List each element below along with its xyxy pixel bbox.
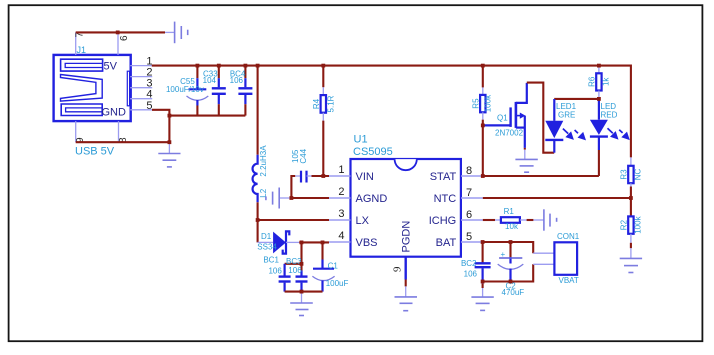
junction LED anode rail / R6 — [597, 97, 601, 101]
LED1 GRE — [545, 99, 586, 153]
U1 pin numbers right — [466, 165, 472, 243]
wire 5V rail — [152, 66, 631, 158]
wire USB pin5 to cap rail — [152, 110, 169, 142]
U1 left pin stubs — [329, 176, 351, 242]
svg-text:6: 6 — [466, 209, 472, 221]
wire R1 to ground — [527, 219, 534, 221]
svg-text:1: 1 — [338, 164, 344, 176]
wire caps bottom rail — [285, 291, 323, 293]
ground below BC caps — [290, 292, 313, 316]
junction BC3 / BC1 branch — [300, 262, 304, 266]
svg-text:NC: NC — [633, 169, 642, 181]
wire shell-bottom — [76, 141, 170, 143]
wire R4 to VIN — [312, 121, 330, 176]
capacitor BC1 — [263, 256, 290, 292]
junction STAT / R5 column — [481, 174, 485, 178]
svg-text:3: 3 — [338, 208, 344, 220]
wire LED anode rail — [554, 98, 599, 100]
svg-text:GRE: GRE — [558, 111, 575, 120]
junction BAT / C2 — [509, 240, 513, 244]
J1 shell pins top — [76, 32, 118, 55]
ground below R2 — [620, 248, 642, 272]
junction 5V rail / R6 — [597, 64, 601, 68]
ground (left) AGND — [266, 188, 292, 209]
svg-text:470uF: 470uF — [502, 288, 525, 297]
transistor Q1 2N7002 — [483, 83, 527, 150]
svg-text:VIN: VIN — [356, 171, 374, 183]
svg-text:GND: GND — [102, 106, 127, 118]
inductor L2 — [253, 145, 268, 202]
junction caps bottom rail / ground — [300, 290, 304, 294]
capacitor C44 — [291, 148, 312, 182]
svg-text:C44: C44 — [299, 148, 308, 163]
svg-text:100uF: 100uF — [326, 279, 349, 288]
svg-text:7: 7 — [466, 187, 472, 199]
svg-text:C1: C1 — [328, 261, 339, 270]
wire VBS — [299, 241, 329, 243]
wire rail to R5 — [482, 66, 484, 88]
resistor R1 — [495, 207, 527, 231]
junction NTC / R3 R2 — [629, 196, 633, 200]
junction AGND node — [290, 196, 294, 200]
IC U1 CS5095 — [351, 133, 461, 256]
wire rail to R4 — [322, 66, 324, 88]
junction 5V rail / BC4 — [244, 64, 248, 68]
svg-text:106: 106 — [230, 76, 244, 85]
svg-text:USB 5V: USB 5V — [75, 146, 115, 158]
junction VBS / BC3 — [300, 241, 304, 245]
svg-text:NTC: NTC — [434, 193, 457, 205]
ground PGDN — [395, 286, 418, 310]
wire rail to L2 — [257, 66, 259, 155]
wire cap bottom rail — [169, 115, 245, 117]
diode D1 — [257, 231, 299, 253]
junction shell wire / ground — [168, 140, 172, 144]
J1 pin numbers 1-5 — [146, 56, 152, 112]
wire C2 drop — [509, 242, 511, 257]
svg-text:1k: 1k — [602, 77, 611, 86]
junction 5V rail / C33 — [217, 64, 221, 68]
svg-text:4: 4 — [338, 230, 344, 242]
svg-text:R2: R2 — [620, 219, 629, 230]
svg-text:5V: 5V — [104, 60, 118, 72]
junction gnd rail / C2 — [509, 280, 513, 284]
svg-text:BAT: BAT — [436, 237, 457, 249]
wire shield-top — [76, 31, 165, 33]
ground (right) shield — [165, 22, 188, 44]
svg-text:BC2: BC2 — [461, 259, 477, 268]
junction shield pin 6 — [116, 31, 120, 35]
svg-text:100k: 100k — [484, 94, 493, 112]
J1 shell pins bottom — [76, 121, 119, 142]
svg-text:5: 5 — [466, 231, 472, 243]
capacitor BC3 — [286, 257, 308, 292]
wire battery ground rail — [483, 264, 534, 281]
ground Q1 source — [515, 150, 537, 173]
U1 right pin stubs — [461, 176, 483, 242]
svg-text:8: 8 — [466, 165, 472, 177]
ground (right) ICHG — [533, 209, 556, 230]
svg-text:R3: R3 — [620, 169, 629, 180]
svg-text:RED: RED — [601, 111, 618, 120]
svg-text:STAT: STAT — [430, 171, 457, 183]
resistor R5 — [471, 87, 492, 119]
svg-text:104: 104 — [203, 76, 217, 85]
svg-text:PGDN: PGDN — [401, 221, 413, 253]
connector J1 body — [54, 55, 131, 121]
svg-text:AGND: AGND — [356, 193, 388, 205]
junction BAT / BC2 — [481, 240, 485, 244]
svg-text:VBAT: VBAT — [559, 276, 579, 285]
wire L2 to D1/LX — [257, 202, 259, 242]
J1 pin stubs 1-5 — [130, 66, 152, 110]
junction VBS / C1 — [321, 241, 325, 245]
svg-text:5.1R: 5.1R — [327, 95, 336, 112]
wire C1 drop — [321, 242, 323, 259]
ground below USB — [158, 142, 180, 167]
wire LED RED cathode to STAT — [598, 150, 600, 176]
junction VIN node — [321, 174, 325, 178]
svg-text:2.2uH3A: 2.2uH3A — [259, 145, 268, 177]
svg-text:2N7002: 2N7002 — [495, 129, 524, 138]
svg-text:106: 106 — [268, 267, 282, 276]
svg-text:SS34: SS34 — [257, 242, 277, 251]
capacitor BC4 — [230, 66, 253, 116]
U1 pin numbers left — [338, 164, 344, 242]
svg-text:100uF/10v: 100uF/10v — [166, 85, 204, 94]
svg-text:6: 6 — [119, 35, 130, 41]
ground below BC2 — [471, 288, 493, 310]
svg-text:R1: R1 — [504, 207, 515, 216]
svg-text:VBS: VBS — [356, 237, 378, 249]
svg-text:100k: 100k — [633, 215, 642, 233]
capacitor C55 — [166, 66, 208, 116]
wire NTC net — [483, 187, 631, 216]
svg-text:LX: LX — [356, 215, 370, 227]
wire STAT net — [483, 120, 599, 176]
svg-text:+: + — [501, 250, 506, 259]
U1 pin 9 stub — [392, 257, 406, 287]
svg-text:CS5095: CS5095 — [353, 146, 393, 158]
wire Q1 drain to LED cathodes — [527, 83, 554, 153]
junction LX node — [256, 218, 260, 222]
capacitor BC2 — [461, 259, 491, 288]
capacitor C33 — [203, 66, 226, 116]
svg-text:CON1: CON1 — [557, 232, 580, 241]
J1 shell pin numbers 7 6 9 8 — [75, 32, 131, 144]
svg-text:R4: R4 — [312, 98, 321, 109]
svg-text:Q1: Q1 — [497, 113, 508, 122]
junction Q1 gate / R5 — [481, 124, 485, 128]
svg-text:D1: D1 — [261, 232, 272, 241]
svg-text:BC1: BC1 — [263, 256, 279, 265]
junction gnd rail / BC2 — [481, 280, 485, 284]
svg-text:106: 106 — [464, 269, 478, 278]
svg-text:10k: 10k — [505, 222, 519, 231]
resistor R4 — [312, 87, 336, 120]
svg-text:L2: L2 — [259, 188, 268, 197]
svg-text:R5: R5 — [471, 98, 480, 109]
resistor R2 — [620, 215, 643, 242]
wire LX — [258, 219, 329, 221]
svg-text:2: 2 — [338, 186, 344, 198]
junction 5V rail / L2 — [256, 64, 260, 68]
capacitor C2 — [498, 250, 525, 297]
wire BAT net — [483, 242, 533, 253]
junction cap rail / pin5 drop — [168, 114, 172, 118]
wire ICHG left — [483, 219, 495, 221]
capacitor C1 — [312, 260, 348, 292]
svg-text:ICHG: ICHG — [429, 215, 457, 227]
wire BC3 drop — [285, 242, 302, 270]
wire R2 to ground — [630, 243, 632, 248]
LED RED — [590, 99, 630, 150]
junction 5V rail / R4 — [321, 64, 325, 68]
junction 5V rail / C55 — [196, 64, 200, 68]
svg-text:J1: J1 — [77, 45, 87, 55]
svg-text:U1: U1 — [354, 133, 368, 145]
resistor R6 — [588, 66, 611, 99]
svg-text:9: 9 — [392, 266, 404, 272]
junction 5V rail / R5 — [481, 64, 485, 68]
wire BC2 drop — [482, 242, 484, 263]
svg-text:5: 5 — [146, 100, 152, 112]
svg-text:106: 106 — [288, 266, 302, 275]
wire C44 left to AGND — [291, 176, 329, 198]
connector CON1 — [533, 232, 580, 285]
svg-text:R6: R6 — [588, 76, 597, 87]
resistor R3 — [620, 157, 643, 186]
